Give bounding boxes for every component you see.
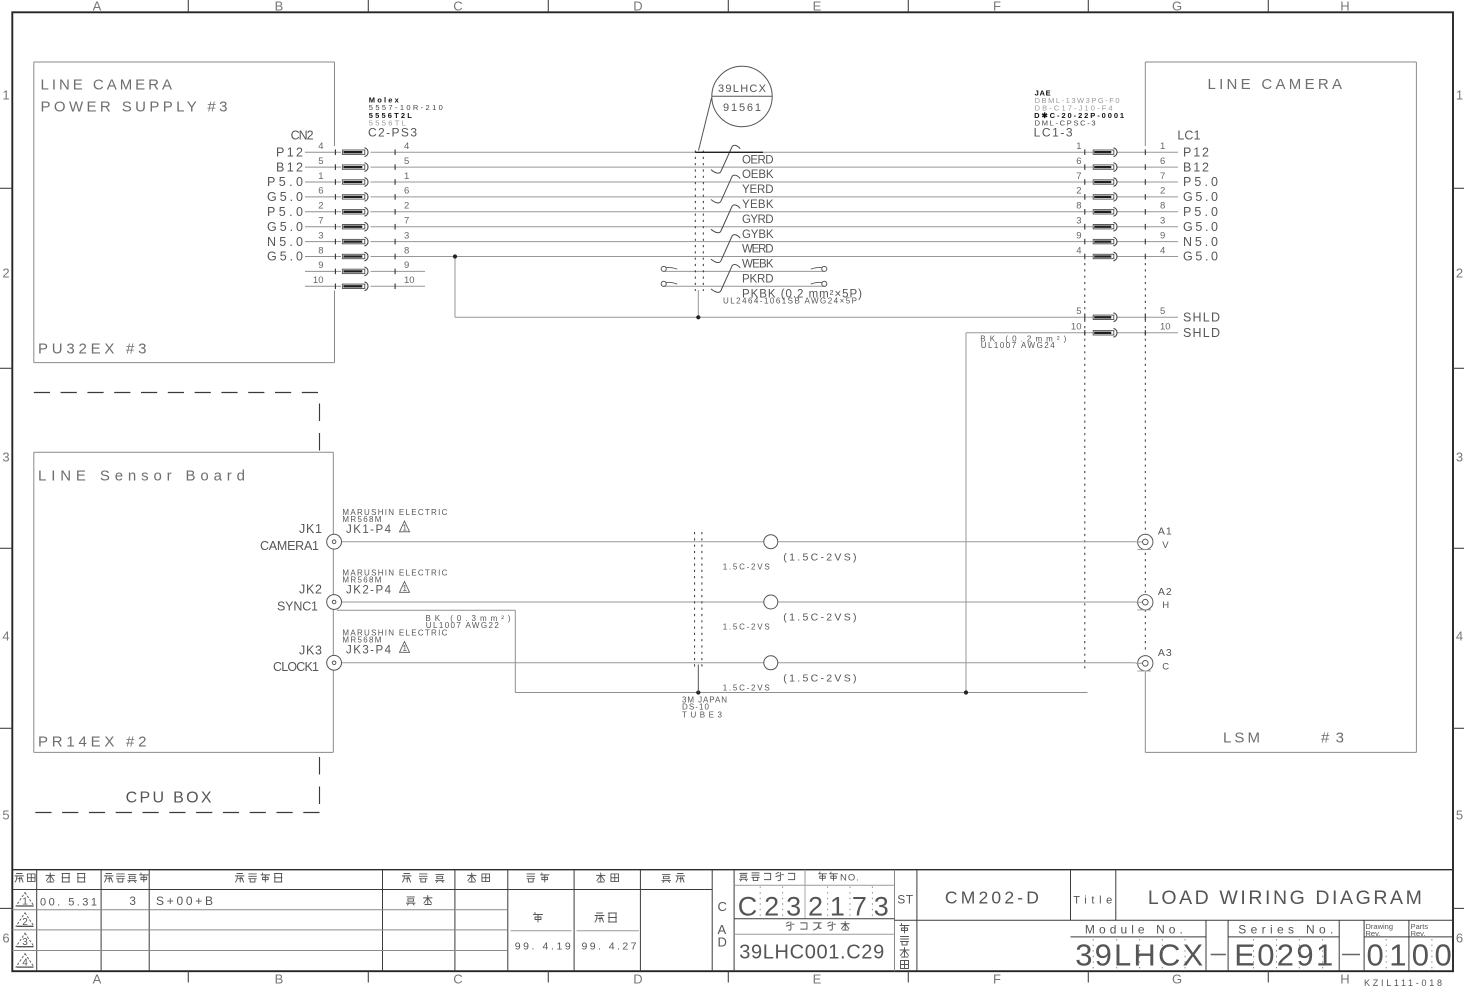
svg-text:CLOCK1: CLOCK1	[273, 660, 319, 674]
svg-text:A3: A3	[1158, 647, 1173, 659]
svg-text:YEBK: YEBK	[742, 199, 774, 211]
svg-text:CAMERA1: CAMERA1	[260, 539, 319, 553]
svg-text:4: 4	[1456, 629, 1463, 644]
svg-text:G5.0: G5.0	[267, 190, 303, 204]
svg-text:8: 8	[1160, 201, 1165, 212]
svg-text:1: 1	[2, 88, 9, 103]
svg-text:P5.0: P5.0	[267, 175, 303, 189]
svg-text:LINE CAMERA: LINE CAMERA	[1208, 76, 1343, 93]
svg-text:LOAD WIRING DIAGRAM: LOAD WIRING DIAGRAM	[1148, 887, 1422, 909]
svg-text:E0291: E0291	[1234, 938, 1333, 973]
svg-text:P5.0: P5.0	[1183, 175, 1218, 189]
svg-text:D: D	[633, 972, 642, 987]
svg-text:C: C	[1162, 661, 1169, 672]
svg-text:Title: Title	[1073, 894, 1112, 906]
svg-text:1: 1	[318, 171, 323, 182]
svg-text:E: E	[813, 972, 822, 987]
svg-text:4: 4	[2, 629, 9, 644]
svg-text:2: 2	[1160, 186, 1165, 197]
svg-text:LINE Sensor Board: LINE Sensor Board	[38, 468, 245, 485]
svg-text:39LHCX: 39LHCX	[718, 83, 767, 95]
svg-text:1: 1	[1076, 141, 1081, 152]
svg-text:G5.0: G5.0	[1183, 250, 1218, 264]
svg-text:1: 1	[1160, 141, 1165, 152]
svg-text:6: 6	[1076, 156, 1081, 167]
svg-text:7: 7	[404, 216, 409, 227]
svg-text:8: 8	[318, 245, 323, 256]
svg-text:DBML-13W3PG-F0: DBML-13W3PG-F0	[1035, 96, 1120, 105]
svg-text:10: 10	[313, 275, 324, 286]
svg-text:UL2464-1061SB AWG24×5P: UL2464-1061SB AWG24×5P	[723, 297, 857, 306]
svg-text:A: A	[93, 972, 102, 987]
svg-text:PR14EX #2: PR14EX #2	[38, 734, 147, 751]
svg-text:N5.0: N5.0	[1183, 235, 1218, 249]
svg-text:3: 3	[2, 450, 9, 465]
svg-text:4: 4	[1076, 245, 1081, 256]
svg-text:4: 4	[318, 141, 323, 152]
svg-text:3: 3	[1456, 450, 1463, 465]
svg-text:C: C	[718, 899, 727, 914]
svg-text:8: 8	[404, 245, 409, 256]
svg-text:1: 1	[404, 171, 409, 182]
svg-text:4: 4	[404, 141, 409, 152]
svg-text:5: 5	[1160, 306, 1165, 317]
svg-text:2: 2	[1456, 266, 1463, 281]
svg-text:6: 6	[1456, 931, 1463, 946]
svg-text:B: B	[275, 972, 284, 987]
svg-text:3: 3	[130, 896, 136, 908]
svg-text:2: 2	[404, 201, 409, 212]
svg-text:PKRD: PKRD	[742, 274, 774, 286]
svg-text:H: H	[1340, 972, 1349, 987]
svg-text:6: 6	[1160, 156, 1165, 167]
svg-text:H: H	[1162, 600, 1169, 611]
svg-text:1: 1	[1456, 88, 1463, 103]
svg-text:(1.5C-2VS): (1.5C-2VS)	[783, 612, 857, 624]
svg-text:9: 9	[404, 260, 409, 271]
svg-text:SHLD: SHLD	[1183, 311, 1220, 325]
svg-text:G5.0: G5.0	[267, 250, 303, 264]
svg-text:P5.0: P5.0	[267, 205, 303, 219]
svg-text:WEBK: WEBK	[742, 259, 774, 271]
svg-text:3: 3	[1160, 216, 1165, 227]
svg-text:G5.0: G5.0	[1183, 190, 1218, 204]
svg-text:(1.5C-2VS): (1.5C-2VS)	[783, 551, 857, 563]
svg-text:D: D	[718, 935, 727, 950]
svg-text:LSM: LSM	[1223, 730, 1260, 747]
svg-text:9: 9	[1160, 230, 1165, 241]
svg-text:OEBK: OEBK	[742, 169, 774, 181]
svg-text:(1.5C-2VS): (1.5C-2VS)	[783, 672, 857, 684]
svg-text:LC1: LC1	[1177, 129, 1200, 143]
svg-text:F: F	[993, 972, 1001, 987]
svg-text:WERD: WERD	[742, 244, 774, 256]
svg-text:GYRD: GYRD	[742, 214, 774, 226]
svg-text:H: H	[1340, 0, 1349, 14]
svg-text:YERD: YERD	[742, 184, 774, 196]
svg-text:JK2: JK2	[299, 583, 322, 597]
svg-text:39LHC001.C29: 39LHC001.C29	[739, 942, 884, 964]
svg-text:C2-PS3: C2-PS3	[368, 126, 417, 140]
svg-text:4: 4	[1160, 245, 1165, 256]
svg-text:SHLD: SHLD	[1183, 326, 1220, 340]
svg-text:ST: ST	[897, 892, 914, 906]
svg-text:2: 2	[1076, 186, 1081, 197]
svg-text:5: 5	[404, 156, 409, 167]
svg-text:G5.0: G5.0	[1183, 220, 1218, 234]
svg-text:PU32EX #3: PU32EX #3	[38, 341, 147, 358]
svg-text:E: E	[813, 0, 822, 14]
svg-text:A2: A2	[1158, 586, 1173, 598]
svg-text:10: 10	[1160, 322, 1171, 333]
svg-text:9: 9	[1076, 230, 1081, 241]
svg-text:5: 5	[2, 808, 9, 823]
svg-text:N5.0: N5.0	[267, 235, 303, 249]
svg-text:5: 5	[1076, 306, 1081, 317]
svg-text:5: 5	[1456, 808, 1463, 823]
svg-text:91561: 91561	[723, 102, 761, 114]
svg-text:G: G	[1172, 0, 1182, 14]
svg-text:C: C	[453, 972, 462, 987]
svg-text:JK1: JK1	[299, 522, 322, 536]
svg-text:10: 10	[404, 275, 415, 286]
svg-text:7: 7	[318, 216, 323, 227]
svg-text:7: 7	[1160, 171, 1165, 182]
svg-text:2: 2	[2, 266, 9, 281]
svg-text:LC1-3: LC1-3	[1034, 126, 1073, 140]
svg-text:V: V	[1162, 540, 1169, 551]
svg-text:9: 9	[318, 260, 323, 271]
svg-text:D: D	[633, 0, 642, 14]
svg-text:B12: B12	[1183, 160, 1209, 174]
svg-text:7: 7	[1076, 171, 1081, 182]
svg-text:UL1007 AWG22: UL1007 AWG22	[426, 621, 500, 630]
svg-text:6: 6	[404, 186, 409, 197]
svg-text:B12: B12	[276, 160, 303, 174]
svg-text:3: 3	[318, 230, 323, 241]
svg-text:P5.0: P5.0	[1183, 205, 1218, 219]
svg-text:B: B	[275, 0, 284, 14]
svg-text:2: 2	[318, 201, 323, 212]
svg-text:A1: A1	[1158, 526, 1173, 538]
svg-text:P12: P12	[276, 145, 303, 159]
svg-text:CN2: CN2	[291, 129, 314, 143]
svg-text:UL1007 AWG24: UL1007 AWG24	[981, 341, 1056, 350]
svg-text:SYNC1: SYNC1	[277, 600, 318, 614]
svg-text:6: 6	[2, 931, 9, 946]
svg-text:3: 3	[404, 230, 409, 241]
svg-text:A: A	[93, 0, 102, 14]
svg-text:10: 10	[1071, 322, 1082, 333]
svg-text:G: G	[1172, 972, 1182, 987]
svg-text:5: 5	[318, 156, 323, 167]
svg-text:6: 6	[318, 186, 323, 197]
svg-text:3: 3	[1076, 216, 1081, 227]
svg-text:8: 8	[1076, 201, 1081, 212]
svg-text:G5.0: G5.0	[267, 220, 303, 234]
svg-text:KZIL111-018: KZIL111-018	[1364, 978, 1442, 988]
svg-text:LINE CAMERA: LINE CAMERA	[41, 77, 173, 94]
svg-text:OERD: OERD	[742, 154, 774, 166]
svg-text:P12: P12	[1183, 145, 1209, 159]
svg-text:NO.: NO.	[840, 873, 860, 884]
svg-text:JK3: JK3	[299, 644, 322, 658]
svg-text:GYBK: GYBK	[742, 229, 774, 241]
svg-text:F: F	[993, 0, 1001, 14]
svg-text:C: C	[453, 0, 462, 14]
